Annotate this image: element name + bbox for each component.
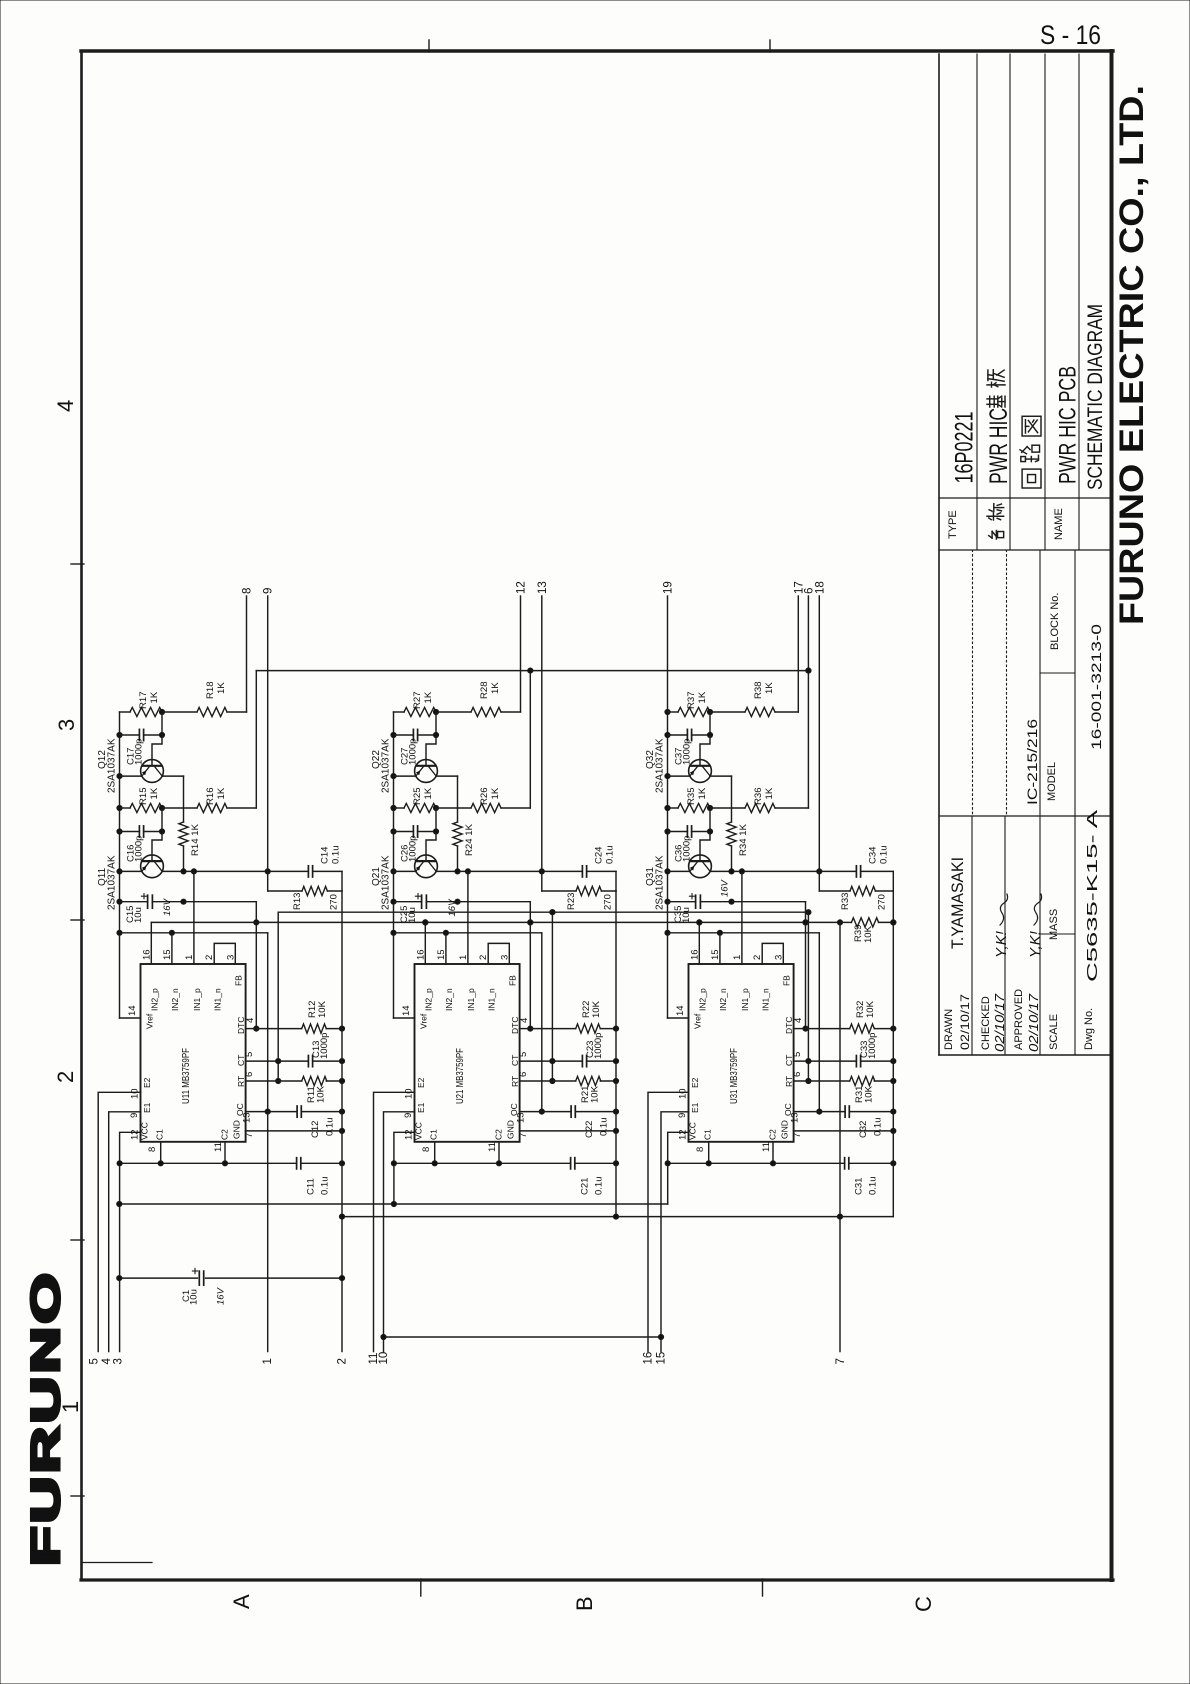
node R25/R26 junction xyxy=(433,805,438,810)
pin 10 E2 U21 xyxy=(374,1092,415,1351)
svg-text:02/10/17: 02/10/17 xyxy=(958,994,972,1050)
svg-text:9: 9 xyxy=(263,588,275,594)
svg-text:2: 2 xyxy=(478,955,489,960)
svg-text:0.1u: 0.1u xyxy=(320,1177,331,1196)
svg-text:19: 19 xyxy=(663,581,675,594)
grid tick left-4 xyxy=(71,1495,84,1497)
svg-text:8: 8 xyxy=(242,588,254,594)
bus IN2- segment U11 xyxy=(120,932,268,934)
resistor R28 1K xyxy=(436,711,471,713)
border frame xyxy=(81,51,1113,1580)
svg-text:1000p: 1000p xyxy=(682,739,693,765)
terminal 7 wire xyxy=(839,922,841,1351)
svg-text:PWR HIC PCB: PWR HIC PCB xyxy=(1055,366,1082,484)
wire Q12 collector xyxy=(162,775,183,777)
resistor R15 1K xyxy=(120,807,131,809)
value 基板 (board) xyxy=(987,396,1005,407)
terminal 17 wire xyxy=(797,596,799,712)
svg-text:FB: FB xyxy=(508,975,518,986)
svg-text:6: 6 xyxy=(792,1072,803,1077)
wire OC riser U31 xyxy=(818,933,820,1112)
svg-text:IN2_p: IN2_p xyxy=(150,988,160,1011)
pin 6 RT resistor R21 10K xyxy=(520,1080,553,1082)
svg-text:15: 15 xyxy=(436,949,447,960)
svg-text:C1: C1 xyxy=(429,1129,439,1140)
capacitor C16 1000p xyxy=(120,831,140,833)
pin 7 GND U11 xyxy=(246,1130,342,1132)
svg-text:7: 7 xyxy=(518,1133,529,1138)
svg-text:C31: C31 xyxy=(854,1178,865,1195)
bus CT tie xyxy=(278,911,808,913)
capacitor C37 1000p xyxy=(668,734,688,736)
svg-text:2SA1037AK: 2SA1037AK xyxy=(381,738,392,793)
wire Vref rail U31 xyxy=(667,712,669,1018)
svg-text:SCHEMATIC DIAGRAM: SCHEMATIC DIAGRAM xyxy=(1083,304,1107,490)
node R15/R16 junction xyxy=(159,805,164,810)
svg-text:GND: GND xyxy=(506,1120,516,1139)
pin 9 E1 U11 xyxy=(109,1112,141,1352)
svg-text:1K: 1K xyxy=(423,787,434,799)
svg-text:FURUNO: FURUNO xyxy=(24,1270,68,1566)
svg-text:DRAWN: DRAWN xyxy=(943,1009,955,1050)
wire R16 riser to output bus xyxy=(255,671,257,808)
svg-text:IN2_p: IN2_p xyxy=(424,988,434,1011)
svg-text:5: 5 xyxy=(244,1052,255,1057)
value 回路図 (circuit diagram) xyxy=(1022,469,1041,488)
svg-text:16V: 16V xyxy=(447,898,458,917)
svg-text:E2: E2 xyxy=(416,1077,426,1088)
wire pin15 stub U31 xyxy=(719,933,721,964)
op-amp IC U21 MB3759PF box xyxy=(415,964,520,1142)
svg-text:0.1u: 0.1u xyxy=(594,1177,605,1196)
wire CT riser U11 xyxy=(277,912,279,1081)
svg-text:8: 8 xyxy=(421,1147,432,1152)
pin 8 C1 stub U21 xyxy=(434,1142,436,1164)
pin 10 E2 U31 xyxy=(648,1092,689,1351)
svg-text:C1: C1 xyxy=(703,1129,713,1140)
svg-text:R15: R15 xyxy=(138,787,149,805)
pin 5 CT capacitor C33 1000p xyxy=(794,1060,809,1062)
svg-text:10: 10 xyxy=(130,1088,141,1099)
svg-text:IC-215/216: IC-215/216 xyxy=(1025,719,1040,805)
resistor R23 270 xyxy=(541,871,543,891)
node R27/R28 junction xyxy=(433,709,438,714)
svg-text:R24 1K: R24 1K xyxy=(464,823,475,856)
node R37/R38 junction xyxy=(707,709,712,714)
resistor R24 1K xyxy=(453,822,462,846)
svg-text:T.YAMASAKI: T.YAMASAKI xyxy=(949,857,967,949)
wire Q12 emitter xyxy=(120,775,142,777)
svg-text:1000p: 1000p xyxy=(682,836,693,862)
terminal 6 wire xyxy=(807,596,809,808)
wire Q21 emitter xyxy=(394,870,416,872)
wire Q11 emitter xyxy=(120,870,142,872)
svg-text:1000p: 1000p xyxy=(134,836,145,862)
svg-text:B: B xyxy=(572,1596,597,1611)
svg-text:A: A xyxy=(229,1594,254,1609)
svg-text:VCC: VCC xyxy=(688,1122,698,1140)
svg-text:C22: C22 xyxy=(584,1121,595,1138)
svg-text:C5635-K15- A: C5635-K15- A xyxy=(1084,810,1101,982)
svg-text:11: 11 xyxy=(213,1142,224,1152)
svg-text:1000p: 1000p xyxy=(134,739,145,765)
svg-text:APPROVED: APPROVED xyxy=(1013,989,1025,1050)
svg-text:IN2_n: IN2_n xyxy=(170,988,180,1011)
svg-text:4: 4 xyxy=(53,400,78,412)
svg-text:18: 18 xyxy=(814,581,826,594)
svg-text:10K: 10K xyxy=(316,1085,327,1103)
pin 4 DTC resistor R32 10K xyxy=(794,1028,806,1030)
svg-text:1000p: 1000p xyxy=(408,836,419,862)
transistor Q31 2SA1037AK xyxy=(689,855,712,878)
svg-text:270: 270 xyxy=(329,894,340,910)
resistor R13 270 xyxy=(267,871,269,891)
svg-text:10K: 10K xyxy=(865,1000,876,1018)
svg-text:10: 10 xyxy=(404,1088,415,1099)
title block divider label-col xyxy=(939,549,1111,551)
svg-text:GND: GND xyxy=(232,1120,242,1139)
wire pin2-pin3 bracket U11 xyxy=(214,943,235,964)
bus IN2+ tie xyxy=(151,921,840,923)
svg-text:9: 9 xyxy=(403,1113,414,1118)
svg-text:02/10/17: 02/10/17 xyxy=(1027,993,1041,1052)
svg-text:C21: C21 xyxy=(580,1178,591,1195)
svg-text:10: 10 xyxy=(678,1088,689,1099)
pin 11 C2 stub U11 xyxy=(224,1142,226,1164)
svg-text:15: 15 xyxy=(710,949,721,960)
wire pin1 riser U11 xyxy=(193,871,195,964)
svg-text:1K: 1K xyxy=(423,691,434,703)
svg-text:3: 3 xyxy=(113,1358,125,1364)
svg-text:4: 4 xyxy=(245,1018,256,1023)
svg-text:IN1_p: IN1_p xyxy=(192,988,202,1011)
resistor R14 1K xyxy=(179,822,188,846)
svg-text:R23: R23 xyxy=(566,893,577,910)
svg-text:6: 6 xyxy=(244,1072,255,1077)
svg-text:1000p: 1000p xyxy=(319,1033,330,1059)
svg-text:10K: 10K xyxy=(591,1000,602,1018)
title row line DRAWN/CHECKED xyxy=(971,816,973,1055)
resistor R27 1K xyxy=(394,711,405,713)
svg-text:16V: 16V xyxy=(216,1286,227,1305)
resistor R38 1K xyxy=(710,711,745,713)
title block outer xyxy=(938,54,940,1055)
svg-text:IN1_n: IN1_n xyxy=(213,988,223,1011)
svg-text:E2: E2 xyxy=(690,1077,700,1088)
pin 13 OC capacitor C12 0.1u xyxy=(246,1111,268,1113)
pin 11 C2 stub U31 xyxy=(772,1142,774,1164)
svg-text:FB: FB xyxy=(234,975,244,986)
capacitor C35 10u 16V xyxy=(668,901,696,903)
title row line APPROVED/SCALE xyxy=(1039,550,1041,1055)
svg-text:7: 7 xyxy=(792,1133,803,1138)
svg-text:R35: R35 xyxy=(686,787,697,805)
svg-text:CHECKED: CHECKED xyxy=(980,996,992,1050)
svg-text:1K: 1K xyxy=(764,682,775,694)
svg-text:R28: R28 xyxy=(479,681,490,699)
resistor R36 1K xyxy=(710,807,745,809)
svg-text:U31 MB3759PF: U31 MB3759PF xyxy=(728,1048,740,1104)
svg-text:1: 1 xyxy=(262,1358,274,1364)
node R17/R18 junction xyxy=(159,709,164,714)
svg-text:1K: 1K xyxy=(697,787,708,799)
pin 10 E2 U11 xyxy=(98,1092,140,1351)
svg-text:1K: 1K xyxy=(216,787,227,799)
wire Q32 emitter xyxy=(668,775,690,777)
svg-text:E1: E1 xyxy=(142,1102,152,1113)
wire Q32 base jog xyxy=(700,735,710,766)
svg-text:2: 2 xyxy=(204,955,215,960)
svg-text:10u: 10u xyxy=(189,1289,200,1305)
svg-text:IN2_n: IN2_n xyxy=(444,988,454,1011)
svg-text:8: 8 xyxy=(147,1147,158,1152)
svg-text:3: 3 xyxy=(499,955,510,960)
svg-text:R36: R36 xyxy=(753,787,764,805)
label 名称 (name) xyxy=(989,531,1004,540)
svg-text:R25: R25 xyxy=(412,787,423,805)
svg-text:E2: E2 xyxy=(142,1077,152,1088)
svg-text:6: 6 xyxy=(518,1072,529,1077)
terminal 18 wire xyxy=(818,596,820,871)
wire Q21 base jog xyxy=(426,832,436,862)
resistor R35 1K xyxy=(668,807,679,809)
svg-text:16: 16 xyxy=(141,949,152,960)
svg-text:S - 16: S - 16 xyxy=(1040,20,1101,50)
svg-text:10K: 10K xyxy=(590,1085,601,1103)
svg-text:3: 3 xyxy=(225,955,236,960)
svg-text:C34: C34 xyxy=(868,847,879,864)
svg-text:Vref: Vref xyxy=(419,1013,429,1029)
svg-text:C1: C1 xyxy=(155,1129,165,1140)
svg-text:13: 13 xyxy=(537,581,549,594)
pin 14 Vref U11 xyxy=(120,1017,141,1019)
corner mark bottom-left xyxy=(82,1562,152,1564)
svg-text:FB: FB xyxy=(782,975,792,986)
svg-text:C2: C2 xyxy=(494,1129,504,1140)
svg-text:9: 9 xyxy=(677,1113,688,1118)
svg-text:VCC: VCC xyxy=(414,1122,424,1140)
svg-text:IN1_p: IN1_p xyxy=(466,988,476,1011)
title divider SCALE/MASS xyxy=(1040,933,1075,935)
svg-text:C2: C2 xyxy=(220,1129,230,1140)
svg-text:7: 7 xyxy=(244,1133,255,1138)
capacitor C27 1000p xyxy=(394,734,414,736)
svg-text:1K: 1K xyxy=(149,691,160,703)
wire Q12 base jog xyxy=(152,735,162,766)
svg-text:1: 1 xyxy=(184,955,195,960)
resistor R16 1K xyxy=(162,807,197,809)
wire Q22 emitter xyxy=(394,775,416,777)
svg-text:Vref: Vref xyxy=(693,1013,703,1029)
svg-text:IN1_n: IN1_n xyxy=(761,988,771,1011)
pin 9 E1 U21 xyxy=(384,1112,415,1352)
wire Q11 base jog xyxy=(152,832,162,862)
svg-text:R13: R13 xyxy=(292,893,303,910)
capacitor C26 1000p xyxy=(394,831,414,833)
svg-text:0.1u: 0.1u xyxy=(325,1118,336,1137)
svg-text:15: 15 xyxy=(656,1352,668,1365)
svg-text:C12: C12 xyxy=(310,1121,321,1138)
svg-text:1K: 1K xyxy=(216,682,227,694)
pin 12 VCC U31 xyxy=(668,1132,689,1204)
pin 6 RT resistor R31 10K xyxy=(794,1080,809,1082)
svg-text:3: 3 xyxy=(773,955,784,960)
svg-text:1K: 1K xyxy=(764,787,775,799)
svg-text:270: 270 xyxy=(603,894,614,910)
svg-text:Y,K!: Y,K! xyxy=(993,930,1010,958)
terminal 19 wire xyxy=(667,596,669,712)
svg-text:11: 11 xyxy=(761,1142,772,1152)
svg-text:TYPE: TYPE xyxy=(947,510,959,539)
capacitor C34 0.1u xyxy=(855,866,857,877)
svg-text:1000p: 1000p xyxy=(408,739,419,765)
svg-text:R18: R18 xyxy=(205,681,216,699)
svg-text:R17: R17 xyxy=(138,691,149,709)
svg-text:2: 2 xyxy=(53,1071,78,1083)
wire gnd riser U11 xyxy=(341,891,343,1029)
wire Q22 base jog xyxy=(426,735,436,766)
resistor R18 1K xyxy=(162,711,197,713)
svg-text:14: 14 xyxy=(675,1005,686,1016)
grid tick top-2 xyxy=(769,40,771,52)
bus IN2- segment U21 xyxy=(394,932,542,934)
svg-text:R16: R16 xyxy=(205,787,216,805)
resistor R37 1K xyxy=(668,711,679,713)
terminal 13 wire xyxy=(541,596,543,871)
wire DTC riser U21 xyxy=(529,902,531,1029)
svg-text:9: 9 xyxy=(129,1113,140,1118)
resistor R34 1K xyxy=(727,822,736,846)
svg-text:MASS: MASS xyxy=(1048,909,1060,940)
capacitor C21 0.1u on gnd bus xyxy=(394,1162,571,1164)
transistor Q21 2SA1037AK xyxy=(415,855,438,878)
svg-text:C11: C11 xyxy=(306,1178,317,1195)
svg-text:10K: 10K xyxy=(317,1000,328,1018)
bus IN2- segment U31 xyxy=(668,932,820,934)
svg-text:11: 11 xyxy=(487,1142,498,1152)
svg-text:1000p: 1000p xyxy=(593,1033,604,1059)
pin 12 VCC U11 xyxy=(120,1132,141,1351)
pin 4 DTC resistor R22 10K xyxy=(520,1028,531,1030)
svg-text:2SA1037AK: 2SA1037AK xyxy=(381,855,392,910)
capacitor C25 10u 16V xyxy=(394,901,422,903)
title block divider mid xyxy=(939,815,1111,817)
svg-text:1K: 1K xyxy=(697,691,708,703)
capacitor C14 0.1u xyxy=(307,866,309,877)
svg-text:2SA1037AK: 2SA1037AK xyxy=(107,855,118,910)
wire DTC riser U31 xyxy=(805,902,807,1029)
transistor Q12 2SA1037AK xyxy=(141,760,164,783)
svg-text:2: 2 xyxy=(337,1358,349,1364)
svg-text:C14: C14 xyxy=(320,847,331,864)
svg-text:10u: 10u xyxy=(407,907,418,923)
wire gnd riser U31 xyxy=(892,891,894,1029)
grid tick bottom-2 xyxy=(762,1579,764,1596)
grid tick bottom-1 xyxy=(420,1579,422,1596)
resistor R39 10K xyxy=(840,921,851,923)
wire gnd riser U21 xyxy=(615,891,617,1029)
capacitor C17 1000p xyxy=(120,734,140,736)
svg-text:3: 3 xyxy=(54,719,79,731)
pin 8 C1 stub U31 xyxy=(708,1142,710,1164)
svg-text:5: 5 xyxy=(518,1052,529,1057)
svg-text:IN2_n: IN2_n xyxy=(718,988,728,1011)
pin 11 C2 stub U21 xyxy=(498,1142,500,1164)
svg-text:IN2_p: IN2_p xyxy=(698,988,708,1011)
resistor R33 270 xyxy=(818,871,820,891)
title row line SCALE/DwgNo xyxy=(1074,550,1076,1055)
title row NAME line-1 xyxy=(1009,54,1011,550)
grid tick left-2 xyxy=(71,919,84,921)
wire pin16 stub U31 xyxy=(698,922,700,964)
wire DTC riser U11 xyxy=(255,902,257,1029)
svg-text:13: 13 xyxy=(790,1112,801,1123)
op-amp IC U31 MB3759PF box xyxy=(689,964,794,1142)
pin 7 GND U21 xyxy=(520,1130,616,1132)
svg-text:10: 10 xyxy=(378,1352,390,1365)
pin 9 E1 U31 xyxy=(661,1112,689,1352)
terminal 12 wire xyxy=(520,596,522,712)
svg-text:16: 16 xyxy=(643,1352,655,1365)
svg-text:12: 12 xyxy=(516,581,528,594)
wire CT riser U21 xyxy=(551,912,553,1081)
svg-text:GND: GND xyxy=(780,1120,790,1139)
svg-text:10K: 10K xyxy=(863,925,874,943)
wire collector line U31 xyxy=(710,870,856,872)
svg-text:16V: 16V xyxy=(720,878,731,897)
wire pin16 stub U11 xyxy=(150,922,152,964)
capacitor C36 1000p xyxy=(668,831,688,833)
title row line-3 xyxy=(1078,54,1080,550)
wire pin2-pin3 bracket U21 xyxy=(488,943,509,964)
svg-text:2SA1037AK: 2SA1037AK xyxy=(655,738,666,793)
bus GND tie xyxy=(342,1216,893,1218)
svg-text:VCC: VCC xyxy=(140,1122,150,1140)
wire collector line U21 xyxy=(436,870,582,872)
svg-text:02/10/17: 02/10/17 xyxy=(993,993,1007,1052)
pin 6 RT resistor R11 10K xyxy=(246,1080,279,1082)
wire Vref rail U21 xyxy=(393,712,395,1018)
svg-text:E1: E1 xyxy=(416,1102,426,1113)
svg-text:270: 270 xyxy=(877,894,888,910)
wire pin1 riser U31 xyxy=(741,871,743,964)
svg-text:R37: R37 xyxy=(686,691,697,709)
svg-text:R27: R27 xyxy=(412,691,423,709)
pin 8 C1 stub U11 xyxy=(160,1142,162,1164)
capacitor C24 0.1u xyxy=(581,866,583,877)
svg-text:R26: R26 xyxy=(479,787,490,805)
svg-text:4: 4 xyxy=(793,1018,804,1023)
wire Q31 base jog xyxy=(700,832,710,862)
title row TYPE line xyxy=(976,54,978,550)
svg-text:0.1u: 0.1u xyxy=(605,846,616,865)
svg-text:2SA1037AK: 2SA1037AK xyxy=(655,855,666,910)
wire pin2-pin3 bracket U31 xyxy=(762,943,783,964)
svg-text:R34 1K: R34 1K xyxy=(738,823,749,856)
svg-text:15: 15 xyxy=(162,949,173,960)
svg-text:13: 13 xyxy=(516,1112,527,1123)
node R35/R36 junction xyxy=(707,805,712,810)
svg-text:R38: R38 xyxy=(753,681,764,699)
wire pin16 stub U21 xyxy=(424,922,426,964)
wire Vref rail U11 xyxy=(119,712,121,1018)
capacitor C15 10u 16V xyxy=(120,901,148,903)
svg-text:C: C xyxy=(911,1596,936,1612)
pin 4 DTC resistor R12 10K xyxy=(246,1028,257,1030)
svg-text:SCALE: SCALE xyxy=(1048,1014,1060,1050)
svg-text:7: 7 xyxy=(835,1358,847,1364)
transistor Q11 2SA1037AK xyxy=(141,855,164,878)
